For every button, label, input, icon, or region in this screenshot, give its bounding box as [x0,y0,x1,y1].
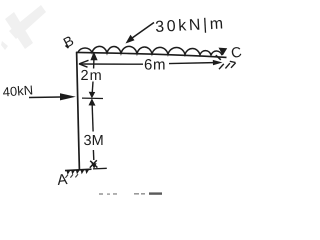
leader arrow to load [130,23,154,40]
column AB [77,52,80,170]
svg-text:40kN: 40kN [2,82,33,99]
tick line across junction [82,97,103,99]
force 40kN arrowhead [60,93,76,100]
tick line right of A [93,167,107,170]
beam BC [76,52,227,57]
dimension 6m line left segment [80,63,144,65]
svg-text:3M: 3M [84,133,104,149]
svg-text:2m: 2m [81,68,103,84]
dimension 3m line lower [92,150,94,160]
support C hatching [219,61,236,69]
dimension 6m line right segment [169,63,219,64]
ground hatching at A [67,170,90,175]
bowtie arrowheads at force level (2m/3m junction) [89,92,96,99]
dimension 2m line lower [91,82,94,93]
dimension 3m line upper [91,106,94,132]
watermark swoosh top-left [1,5,46,50]
dimension 2m upper arrowhead (up) [90,52,97,61]
svg-text:6m: 6m [144,57,166,74]
faint cut-off text bottom edge [99,193,145,195]
support C pin triangle [219,48,228,56]
svg-text:A: A [56,171,68,189]
svg-text:30kN|m: 30kN|m [155,15,226,36]
distributed load scallops 30kN/m [78,46,222,55]
dimension 6m right arrowhead [213,60,223,65]
ground line at A [65,169,92,170]
dimension 3m bottom arrowhead (X + tip) [90,160,98,168]
dimension 2m line upper [93,60,95,69]
dimension 6m left arrowhead [79,60,89,67]
force 40kN shaft [29,96,61,99]
svg-text:C: C [230,44,243,62]
